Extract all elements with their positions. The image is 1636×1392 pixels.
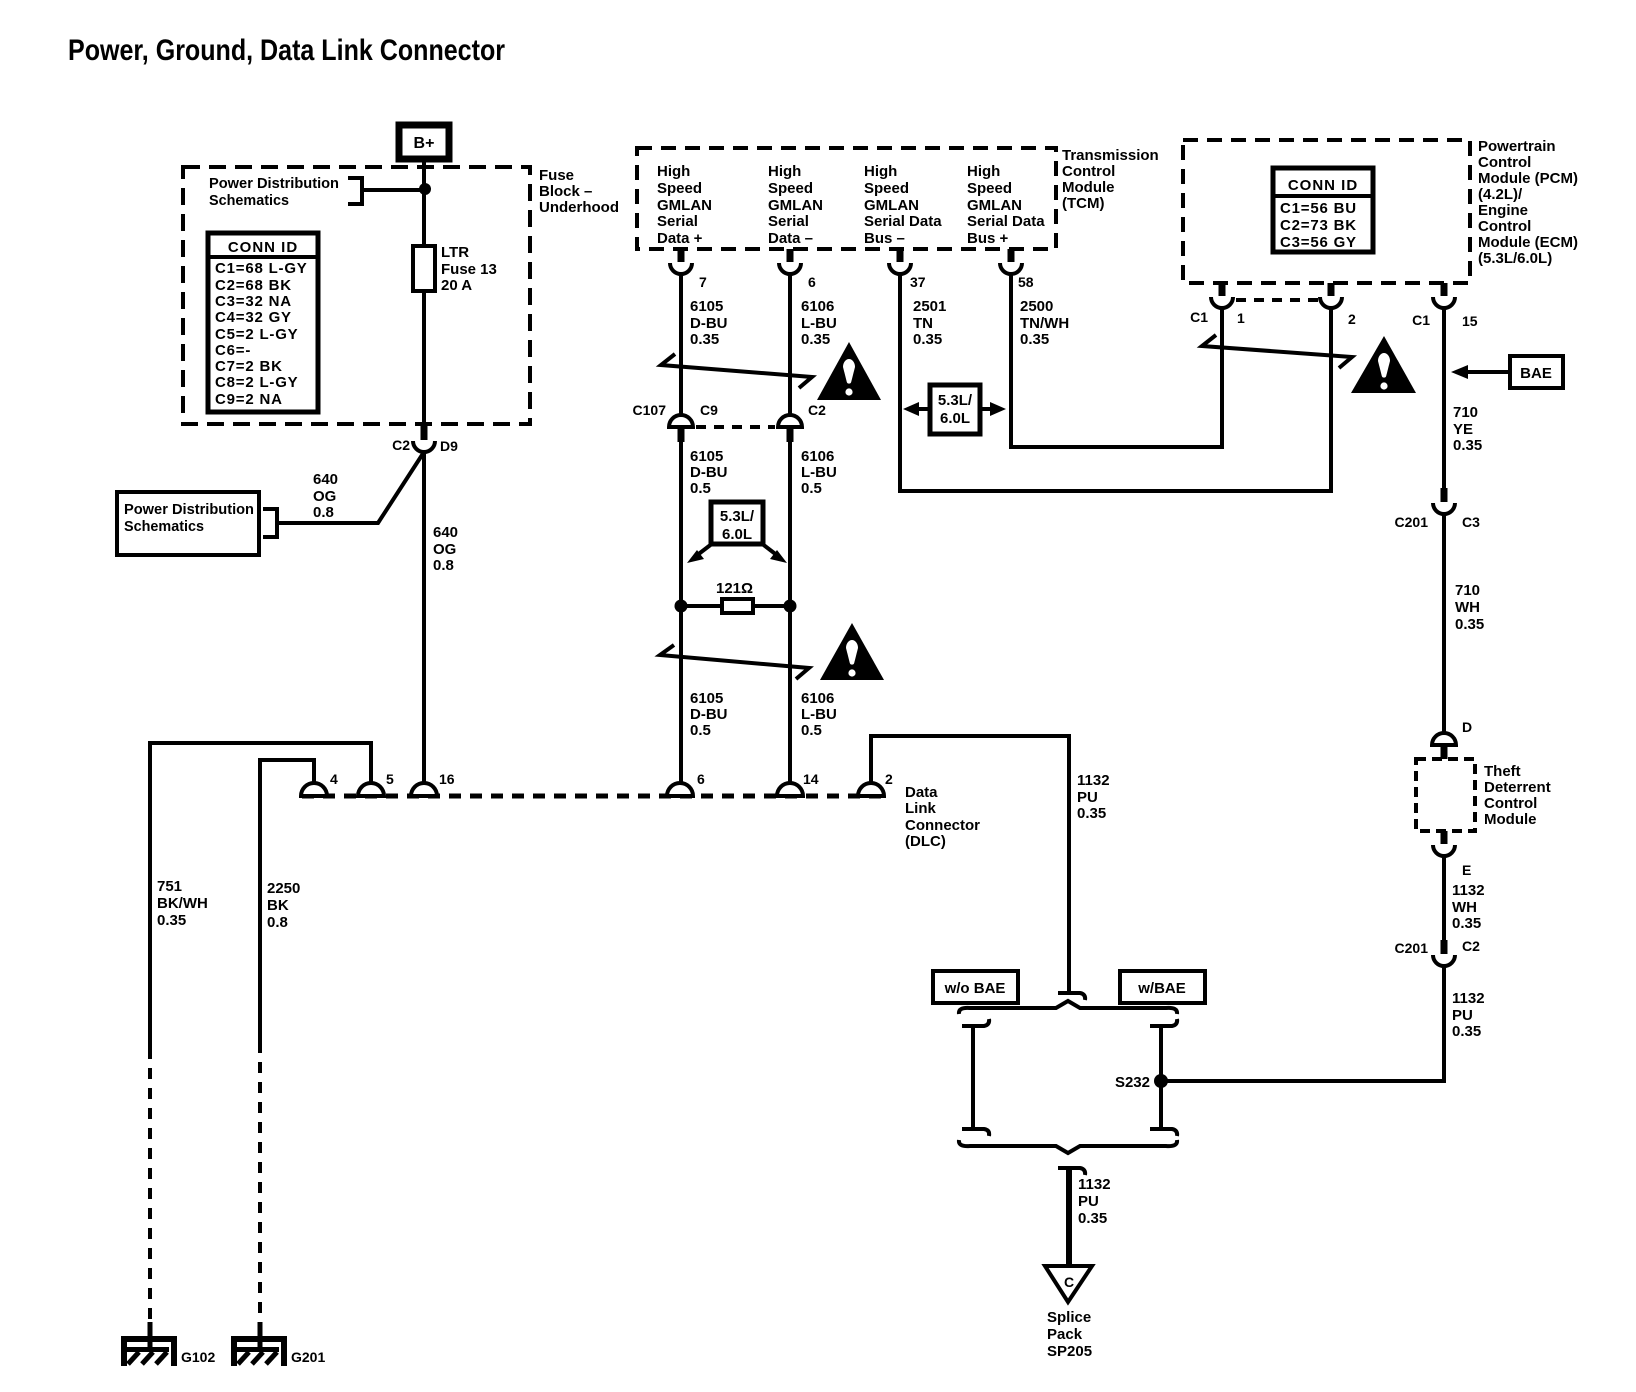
theft deterrent control module dashed box bbox=[1416, 759, 1475, 831]
svg-text:YE: YE bbox=[1453, 421, 1473, 438]
svg-text:Bus +: Bus + bbox=[967, 230, 1009, 247]
connector C107 (C2 side) bbox=[778, 402, 826, 442]
svg-text:37: 37 bbox=[910, 274, 926, 290]
svg-text:OG: OG bbox=[433, 541, 456, 558]
svg-text:Data –: Data – bbox=[768, 230, 813, 247]
svg-text:0.35: 0.35 bbox=[690, 331, 719, 348]
svg-text:Fuse: Fuse bbox=[539, 167, 574, 184]
svg-text:Power Distribution: Power Distribution bbox=[209, 175, 339, 192]
svg-text:0.35: 0.35 bbox=[1020, 331, 1049, 348]
wire 1132 PU 0.35 (right) bbox=[1161, 965, 1444, 1081]
svg-text:6106: 6106 bbox=[801, 298, 834, 315]
option leg right (w/BAE) bbox=[1150, 1019, 1177, 1136]
wire 1132 WH 0.35 bbox=[1442, 856, 1446, 941]
warning triangle 3 bbox=[1351, 336, 1416, 393]
svg-text:6106: 6106 bbox=[801, 690, 834, 707]
wire PCM pin 2 bbox=[1329, 308, 1333, 493]
svg-text:6106: 6106 bbox=[801, 448, 834, 465]
svg-text:121Ω: 121Ω bbox=[716, 580, 753, 597]
svg-text:0.8: 0.8 bbox=[433, 557, 454, 574]
svg-text:0.35: 0.35 bbox=[913, 331, 942, 348]
svg-text:Connector: Connector bbox=[905, 817, 980, 834]
svg-text:(DLC): (DLC) bbox=[905, 833, 946, 850]
5.3L/6.0L option box (TCM bus wires) bbox=[903, 385, 1006, 434]
wire label 640 OG 0.8 (vertical) bbox=[433, 524, 458, 574]
wire 1132 PU 0.35 to splice pack bbox=[1066, 1168, 1072, 1266]
wire 710 YE 0.35 bbox=[1442, 308, 1446, 489]
svg-text:Speed: Speed bbox=[657, 180, 702, 197]
svg-text:C3=56 GY: C3=56 GY bbox=[1280, 234, 1357, 251]
svg-text:L-BU: L-BU bbox=[801, 706, 837, 723]
svg-text:1132: 1132 bbox=[1077, 772, 1110, 789]
svg-text:C8=2 L-GY: C8=2 L-GY bbox=[215, 374, 298, 391]
PCM pin 1 connector bbox=[1190, 283, 1245, 326]
svg-text:w/BAE: w/BAE bbox=[1137, 980, 1186, 997]
svg-text:D9: D9 bbox=[440, 438, 458, 454]
svg-text:High: High bbox=[864, 163, 897, 180]
svg-text:PU: PU bbox=[1078, 1193, 1099, 1210]
svg-text:Pack: Pack bbox=[1047, 1326, 1083, 1343]
svg-text:Transmission: Transmission bbox=[1062, 147, 1159, 164]
wire 6106 L-BU 0.5 (lower) bbox=[788, 606, 792, 784]
svg-text:1132: 1132 bbox=[1452, 882, 1485, 899]
wire DLC pin 4 to G201 bbox=[260, 760, 314, 1042]
PCM label bbox=[1478, 138, 1578, 267]
svg-text:Speed: Speed bbox=[967, 180, 1012, 197]
svg-text:C: C bbox=[1064, 1274, 1074, 1290]
svg-text:G102: G102 bbox=[181, 1349, 215, 1365]
svg-text:C1: C1 bbox=[1412, 312, 1430, 328]
w/BAE option box bbox=[1120, 971, 1205, 1003]
svg-text:6.0L: 6.0L bbox=[940, 410, 970, 427]
wire bracket to B+ feed bbox=[362, 188, 425, 192]
DLC pin 5 connector bbox=[358, 771, 394, 796]
svg-text:Block –: Block – bbox=[539, 183, 592, 200]
svg-text:CONN ID: CONN ID bbox=[1288, 177, 1358, 194]
connector C2 D9 bbox=[392, 426, 458, 454]
svg-text:SP205: SP205 bbox=[1047, 1343, 1092, 1360]
connector C201 C2 bbox=[1395, 938, 1481, 966]
svg-text:2: 2 bbox=[1348, 311, 1356, 327]
wire fuse to connector C2/D9 bbox=[422, 291, 426, 427]
svg-text:15: 15 bbox=[1462, 313, 1478, 329]
svg-text:0.35: 0.35 bbox=[801, 331, 830, 348]
svg-text:0.5: 0.5 bbox=[690, 722, 711, 739]
CONN ID table (fuse block) bbox=[208, 233, 318, 412]
svg-text:0.35: 0.35 bbox=[157, 912, 186, 929]
svg-text:B+: B+ bbox=[414, 135, 435, 152]
svg-text:5: 5 bbox=[386, 771, 394, 787]
svg-text:C2: C2 bbox=[1462, 938, 1480, 954]
svg-text:E: E bbox=[1462, 862, 1471, 878]
svg-text:D: D bbox=[1462, 719, 1472, 735]
wire 640 OG down to DLC 16 bbox=[422, 452, 426, 784]
svg-text:0.35: 0.35 bbox=[1455, 616, 1484, 633]
wire end tick above option brace bbox=[1058, 993, 1085, 1000]
svg-text:0.35: 0.35 bbox=[1078, 1210, 1107, 1227]
fuse LTR Fuse 13 20A bbox=[413, 246, 435, 293]
option leg left (w/o BAE) bbox=[962, 1019, 989, 1136]
svg-text:C4=32 GY: C4=32 GY bbox=[215, 309, 292, 326]
svg-text:D-BU: D-BU bbox=[690, 315, 728, 332]
svg-text:C6=-: C6=- bbox=[215, 342, 251, 359]
wire 640 OG from reference bbox=[277, 452, 424, 523]
svg-text:C2=73 BK: C2=73 BK bbox=[1280, 217, 1357, 234]
TCM pin 6 connector bbox=[779, 249, 816, 290]
svg-text:5.3L/: 5.3L/ bbox=[938, 392, 973, 409]
TCM pin 7 connector bbox=[670, 249, 707, 290]
swap arrow (PCM pins) bbox=[1202, 335, 1352, 368]
wire label 640 OG 0.8 (diagonal) bbox=[313, 471, 338, 521]
svg-text:16: 16 bbox=[439, 771, 455, 787]
svg-text:C201: C201 bbox=[1395, 514, 1429, 530]
svg-text:Powertrain: Powertrain bbox=[1478, 138, 1556, 155]
svg-text:20 A: 20 A bbox=[441, 277, 472, 294]
svg-text:Schematics: Schematics bbox=[209, 192, 289, 209]
svg-text:0.8: 0.8 bbox=[267, 914, 288, 931]
svg-text:BAE: BAE bbox=[1520, 365, 1552, 382]
svg-text:C107: C107 bbox=[633, 402, 667, 418]
svg-text:6.0L: 6.0L bbox=[722, 526, 752, 543]
svg-text:C3=32 NA: C3=32 NA bbox=[215, 293, 292, 310]
ground G102 bbox=[121, 1322, 215, 1366]
svg-text:C1=56 BU: C1=56 BU bbox=[1280, 200, 1357, 217]
svg-text:Bus –: Bus – bbox=[864, 230, 905, 247]
connector C201 C3 bbox=[1395, 488, 1481, 530]
svg-text:2: 2 bbox=[885, 771, 893, 787]
TCM dashed box bbox=[637, 148, 1056, 249]
svg-text:Engine: Engine bbox=[1478, 202, 1528, 219]
svg-text:C1=68 L-GY: C1=68 L-GY bbox=[215, 260, 308, 277]
svg-text:7: 7 bbox=[699, 274, 707, 290]
connector C107 (C9 side) bbox=[633, 402, 719, 442]
svg-text:C5=2 L-GY: C5=2 L-GY bbox=[215, 326, 298, 343]
node junction resistor right bbox=[784, 600, 797, 613]
svg-text:BK/WH: BK/WH bbox=[157, 895, 208, 912]
svg-text:C7=2 BK: C7=2 BK bbox=[215, 358, 283, 375]
PCM pin 15 connector bbox=[1412, 283, 1478, 329]
fuse label bbox=[441, 244, 497, 294]
svg-text:(5.3L/6.0L): (5.3L/6.0L) bbox=[1478, 250, 1552, 267]
svg-text:0.35: 0.35 bbox=[1453, 437, 1482, 454]
svg-text:Deterrent: Deterrent bbox=[1484, 779, 1551, 796]
TCM pin label HS GMLAN Serial Data Bus - bbox=[864, 163, 942, 247]
wire 6105 D-BU 0.5 (upper) bbox=[679, 442, 683, 606]
dashed connector line C107 bbox=[696, 425, 775, 429]
svg-text:58: 58 bbox=[1018, 274, 1034, 290]
svg-text:C2: C2 bbox=[808, 402, 826, 418]
w/o BAE option box bbox=[933, 971, 1018, 1003]
svg-text:2250: 2250 bbox=[267, 880, 300, 897]
svg-text:0.5: 0.5 bbox=[801, 722, 822, 739]
bracket (top reference) bbox=[348, 178, 362, 204]
svg-text:0.35: 0.35 bbox=[1077, 805, 1106, 822]
svg-text:w/o BAE: w/o BAE bbox=[944, 980, 1006, 997]
svg-text:Fuse 13: Fuse 13 bbox=[441, 261, 497, 278]
svg-text:6105: 6105 bbox=[690, 690, 723, 707]
TCM pin label HS GMLAN Serial Data + bbox=[657, 163, 712, 247]
svg-text:C2: C2 bbox=[392, 437, 410, 453]
svg-text:Control: Control bbox=[1484, 795, 1537, 812]
svg-text:2501: 2501 bbox=[913, 298, 946, 315]
svg-text:Speed: Speed bbox=[864, 180, 909, 197]
TCM pin 37 connector bbox=[889, 249, 926, 290]
svg-text:D-BU: D-BU bbox=[690, 464, 728, 481]
svg-text:LTR: LTR bbox=[441, 244, 469, 261]
svg-text:GMLAN: GMLAN bbox=[864, 197, 919, 214]
wire 6106 L-BU 0.5 (upper) bbox=[788, 442, 792, 606]
PCM pin 2 connector bbox=[1320, 283, 1356, 327]
option brace top bbox=[959, 1001, 1177, 1014]
BAE arrow bbox=[1451, 365, 1510, 379]
svg-text:0.35: 0.35 bbox=[1452, 1023, 1481, 1040]
svg-text:Module: Module bbox=[1062, 179, 1115, 196]
wire 6105 D-BU 0.35 bbox=[679, 274, 683, 415]
svg-text:1132: 1132 bbox=[1452, 990, 1485, 1007]
svg-text:S232: S232 bbox=[1115, 1074, 1150, 1091]
TCM pin 58 connector bbox=[1000, 249, 1034, 290]
fuse block label bbox=[539, 167, 619, 216]
svg-text:751: 751 bbox=[157, 878, 182, 895]
svg-text:4: 4 bbox=[330, 771, 338, 787]
svg-text:Data: Data bbox=[905, 784, 938, 801]
svg-text:C201: C201 bbox=[1395, 940, 1429, 956]
power distribution schematics box (left) bbox=[117, 492, 259, 555]
svg-text:C1: C1 bbox=[1190, 309, 1208, 325]
wire 2501 TN 0.35 bbox=[898, 274, 1331, 491]
svg-text:640: 640 bbox=[433, 524, 458, 541]
svg-text:Module: Module bbox=[1484, 811, 1537, 828]
svg-text:PU: PU bbox=[1452, 1007, 1473, 1024]
svg-text:6105: 6105 bbox=[690, 298, 723, 315]
splice S232 bbox=[1115, 1074, 1168, 1091]
wire 6106 L-BU 0.35 bbox=[788, 274, 792, 415]
wire DLC pin 5 to G102 bbox=[150, 743, 371, 1048]
wire label 751 BK/WH 0.35 bbox=[157, 878, 208, 929]
svg-text:Serial: Serial bbox=[657, 213, 698, 230]
svg-text:Schematics: Schematics bbox=[124, 518, 204, 535]
node junction at B+ feed bbox=[419, 183, 431, 195]
splice pack label bbox=[1047, 1309, 1092, 1360]
ground G201 bbox=[231, 1322, 325, 1366]
wire PCM pin 1 bbox=[1220, 308, 1224, 449]
svg-text:(4.2L)/: (4.2L)/ bbox=[1478, 186, 1523, 203]
svg-text:WH: WH bbox=[1455, 599, 1480, 616]
DLC label bbox=[905, 784, 980, 850]
theft module pin E connector bbox=[1433, 831, 1471, 878]
svg-text:Link: Link bbox=[905, 800, 936, 817]
svg-text:(TCM): (TCM) bbox=[1062, 195, 1104, 212]
dashed wire to G102 bbox=[148, 1048, 152, 1325]
svg-text:Control: Control bbox=[1478, 218, 1531, 235]
wire B+ down to fuse bbox=[422, 159, 426, 248]
svg-text:0.5: 0.5 bbox=[801, 480, 822, 497]
DLC pin 14 connector bbox=[777, 771, 819, 796]
dashed wire to G201 bbox=[258, 1042, 262, 1325]
svg-text:High: High bbox=[768, 163, 801, 180]
warning triangle 1 bbox=[817, 342, 881, 400]
svg-text:6: 6 bbox=[808, 274, 816, 290]
DLC pin 16 connector bbox=[411, 771, 455, 796]
svg-text:5.3L/: 5.3L/ bbox=[720, 508, 755, 525]
PCM dashed box bbox=[1183, 140, 1470, 283]
TCM label bbox=[1062, 147, 1159, 212]
svg-text:GMLAN: GMLAN bbox=[657, 197, 712, 214]
wire 6105 D-BU 0.5 (lower) bbox=[679, 606, 683, 784]
resistor 121 ohm bbox=[681, 580, 790, 613]
svg-text:710: 710 bbox=[1455, 582, 1480, 599]
svg-text:6105: 6105 bbox=[690, 448, 723, 465]
swap arrow (C107 data lines) bbox=[660, 645, 809, 679]
svg-text:High: High bbox=[657, 163, 690, 180]
svg-text:Serial: Serial bbox=[768, 213, 809, 230]
theft module label bbox=[1484, 763, 1551, 828]
svg-text:1: 1 bbox=[1237, 310, 1245, 326]
svg-text:L-BU: L-BU bbox=[801, 315, 837, 332]
svg-text:Power, Ground, Data Link Conne: Power, Ground, Data Link Connector bbox=[68, 34, 505, 67]
svg-text:6: 6 bbox=[697, 771, 705, 787]
svg-text:0.8: 0.8 bbox=[313, 504, 334, 521]
svg-text:TN/WH: TN/WH bbox=[1020, 315, 1069, 332]
svg-text:PU: PU bbox=[1077, 789, 1098, 806]
DLC pin 2 connector bbox=[858, 771, 893, 796]
wire 2500 TN/WH 0.35 bbox=[1009, 274, 1222, 447]
wire label 2250 BK 0.8 bbox=[267, 880, 300, 931]
theft module pin D connector bbox=[1432, 719, 1472, 759]
svg-text:1132: 1132 bbox=[1078, 1176, 1111, 1193]
TCM pin label HS GMLAN Serial Data Bus + bbox=[967, 163, 1045, 247]
bracket (left reference) bbox=[263, 509, 277, 537]
TCM pin label HS GMLAN Serial Data - bbox=[768, 163, 823, 247]
svg-text:Underhood: Underhood bbox=[539, 199, 619, 216]
svg-text:0.35: 0.35 bbox=[1452, 915, 1481, 932]
swap arrow (TCM data lines) bbox=[661, 354, 812, 388]
5.3L/6.0L option box (terminating resistor) bbox=[687, 502, 787, 563]
svg-text:C9=2 NA: C9=2 NA bbox=[215, 391, 283, 408]
svg-text:C3: C3 bbox=[1462, 514, 1480, 530]
svg-text:GMLAN: GMLAN bbox=[768, 197, 823, 214]
svg-text:C9: C9 bbox=[700, 402, 718, 418]
svg-text:L-BU: L-BU bbox=[801, 464, 837, 481]
svg-text:Serial Data: Serial Data bbox=[864, 213, 942, 230]
warning triangle 2 bbox=[820, 623, 884, 680]
svg-text:C2=68 BK: C2=68 BK bbox=[215, 277, 292, 294]
svg-text:Theft: Theft bbox=[1484, 763, 1521, 780]
wire DLC pin 2 1132 PU 0.35 bbox=[871, 736, 1069, 991]
svg-text:GMLAN: GMLAN bbox=[967, 197, 1022, 214]
svg-text:Control: Control bbox=[1062, 163, 1115, 180]
splice pack triangle C bbox=[1045, 1266, 1092, 1302]
svg-text:BK: BK bbox=[267, 897, 289, 914]
svg-text:OG: OG bbox=[313, 488, 336, 505]
svg-text:G201: G201 bbox=[291, 1349, 325, 1365]
svg-text:Data +: Data + bbox=[657, 230, 703, 247]
svg-text:640: 640 bbox=[313, 471, 338, 488]
DLC dashed connector line bbox=[302, 794, 884, 799]
svg-text:D-BU: D-BU bbox=[690, 706, 728, 723]
svg-text:High: High bbox=[967, 163, 1000, 180]
svg-text:Module (PCM): Module (PCM) bbox=[1478, 170, 1578, 187]
svg-text:710: 710 bbox=[1453, 404, 1478, 421]
B+ power symbol bbox=[399, 125, 449, 159]
svg-text:TN: TN bbox=[913, 315, 933, 332]
svg-text:Power Distribution: Power Distribution bbox=[124, 501, 254, 518]
DLC pin 4 connector bbox=[301, 771, 338, 796]
svg-text:Serial Data: Serial Data bbox=[967, 213, 1045, 230]
svg-text:Speed: Speed bbox=[768, 180, 813, 197]
svg-text:0.5: 0.5 bbox=[690, 480, 711, 497]
svg-text:14: 14 bbox=[803, 771, 819, 787]
svg-text:Control: Control bbox=[1478, 154, 1531, 171]
CONN ID table (PCM) bbox=[1273, 168, 1373, 252]
dashed connector line C1 bbox=[1236, 298, 1318, 302]
option brace bottom bbox=[959, 1140, 1177, 1153]
wire 710 WH 0.35 bbox=[1442, 513, 1446, 737]
svg-text:2500: 2500 bbox=[1020, 298, 1053, 315]
fuse block underhood dashed box bbox=[183, 167, 530, 424]
svg-text:Module (ECM): Module (ECM) bbox=[1478, 234, 1578, 251]
BAE reference box bbox=[1510, 356, 1563, 388]
svg-text:Splice: Splice bbox=[1047, 1309, 1091, 1326]
node junction resistor left bbox=[675, 600, 688, 613]
svg-text:WH: WH bbox=[1452, 899, 1477, 916]
wire end tick below option brace bbox=[1058, 1168, 1085, 1175]
DLC pin 6 connector bbox=[667, 771, 705, 796]
svg-text:CONN ID: CONN ID bbox=[228, 239, 298, 256]
